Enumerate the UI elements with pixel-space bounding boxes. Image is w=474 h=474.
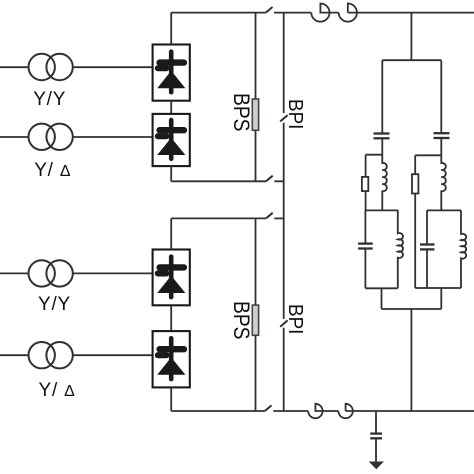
thyristor valve V3 <box>153 250 190 306</box>
wire T4 to valve V4 <box>73 354 153 356</box>
wire cap leg lower left filter section 2 <box>364 249 366 289</box>
wire AC feed row 2 <box>0 136 29 138</box>
smoothing reactor loop 1 bottom <box>308 404 338 418</box>
disconnector blade on bottom bus <box>265 405 272 411</box>
wire resistor leg lower right filter <box>414 194 416 289</box>
wire bottom bar right filter <box>415 287 461 289</box>
label BPI upper <box>284 99 305 129</box>
wire C3 to RL junction <box>440 138 442 155</box>
wire T1 to valve V1 <box>73 66 153 68</box>
wire bottom bus right section <box>346 410 474 412</box>
wire lower mid bus <box>171 217 266 219</box>
bypass isolator BPI blade lower <box>280 320 287 326</box>
wire upper mid bus to BPI <box>274 180 283 182</box>
thyristor valve V1 <box>153 45 190 101</box>
wire section bar 2 right filter <box>427 209 461 211</box>
transformer T2 (Y/Delta) <box>29 124 73 150</box>
resistor R1 left filter <box>362 177 368 191</box>
wire top bus left section <box>171 12 266 14</box>
wire cap leg upper left filter section 2 <box>364 210 366 243</box>
resistor R2 right filter <box>412 174 418 193</box>
transformer T4 (Y/Delta) <box>29 342 73 368</box>
disconnector blade on top bus <box>266 7 273 13</box>
wire BPI column segment 1 <box>283 13 285 114</box>
wire section bar 2 left filter <box>365 209 398 211</box>
wire cap leg lower right filter section 2 <box>426 249 428 288</box>
wire BPI column segment 3 <box>283 328 285 411</box>
bypass switch BPS upper <box>252 99 258 130</box>
wire RL top bar left filter <box>366 154 383 156</box>
thyristor valve V4 <box>153 331 190 387</box>
wire C1 to RL junction <box>381 138 383 154</box>
wire BPS upper column bottom <box>255 130 257 181</box>
wire T3 to valve V3 <box>73 272 153 274</box>
label Y/Delta lower <box>39 381 76 400</box>
bypass switch BPS lower <box>252 305 258 335</box>
disconnector blade on lower mid bus <box>266 213 273 219</box>
thyristor valve V2 <box>153 114 190 166</box>
wire V3 to V4 <box>170 305 172 331</box>
wire filter collector bar <box>382 308 442 310</box>
label Y/Delta upper <box>34 161 71 180</box>
ground arrow <box>369 462 384 470</box>
wire V2 to mid bus <box>170 166 172 181</box>
wire resistor leg lower left filter <box>365 191 367 210</box>
inductor L3 right filter <box>441 155 446 210</box>
smoothing reactor loop 1 top <box>311 4 338 22</box>
wire top bus lead from V1 <box>170 13 172 45</box>
wire bottom bus left section <box>171 410 265 412</box>
wire bottom bus after switch <box>273 410 308 412</box>
wire top bus right section <box>348 12 474 14</box>
smoothing reactor loop 2 top <box>339 4 357 22</box>
inductor L2 left filter <box>398 210 403 288</box>
wire V4 to bottom bus <box>170 387 172 411</box>
wire filter top split bar <box>382 59 441 61</box>
wire ground branch lower <box>375 438 377 462</box>
capacitor C5 ground branch <box>370 434 382 439</box>
capacitor C1 left filter <box>374 134 390 139</box>
wire T2 to valve V2 <box>73 136 153 138</box>
wire AC feed row 1 <box>0 66 29 68</box>
wire filter feed drop <box>410 13 412 61</box>
capacitor C4 right filter <box>420 245 435 250</box>
inductor L1 left filter <box>382 155 387 211</box>
wire top bus after switch <box>274 12 311 14</box>
label Y/Y upper <box>33 90 66 109</box>
capacitor C3 right filter <box>434 133 450 138</box>
label BPS lower <box>230 301 253 340</box>
wire right filter branch upper <box>440 60 442 133</box>
wire bottom bar left filter <box>365 287 397 289</box>
transformer T3 (Y/Y) <box>29 260 73 286</box>
wire cap leg upper right filter section 2 <box>426 210 428 244</box>
wire BPS lower column bottom <box>255 335 257 411</box>
wire BPI column segment 2 <box>283 123 285 319</box>
wire V3 top lead <box>170 218 172 249</box>
wire left filter branch upper <box>381 60 383 133</box>
wire left filter exit <box>381 288 383 309</box>
wire ground branch upper <box>375 411 377 433</box>
wire resistor leg upper left filter <box>365 155 367 177</box>
label BPS upper <box>230 93 253 132</box>
wire BPS lower column top <box>255 218 257 305</box>
wire V1 to V2 <box>170 101 172 114</box>
inductor L4 right filter <box>461 210 466 288</box>
smoothing reactor loop 2 bottom <box>338 404 352 418</box>
wire RL top bar right filter <box>415 154 441 156</box>
wire filter return to bottom bus <box>410 309 412 411</box>
wire AC feed row 4 <box>0 354 29 356</box>
wire BPS upper column top <box>255 13 257 99</box>
transformer T1 (Y/Y) <box>29 54 73 80</box>
capacitor C2 left filter <box>358 244 373 249</box>
disconnector blade on upper mid bus <box>266 176 273 182</box>
wire resistor leg upper right filter <box>414 155 416 174</box>
wire right filter exit <box>440 288 442 309</box>
label Y/Y lower <box>38 295 71 314</box>
wire upper mid bus <box>171 180 266 182</box>
wire AC feed row 3 <box>0 272 29 274</box>
wire lower mid bus to BPI <box>274 217 283 219</box>
label BPI lower <box>284 304 305 334</box>
bypass isolator BPI blade upper <box>280 115 287 121</box>
